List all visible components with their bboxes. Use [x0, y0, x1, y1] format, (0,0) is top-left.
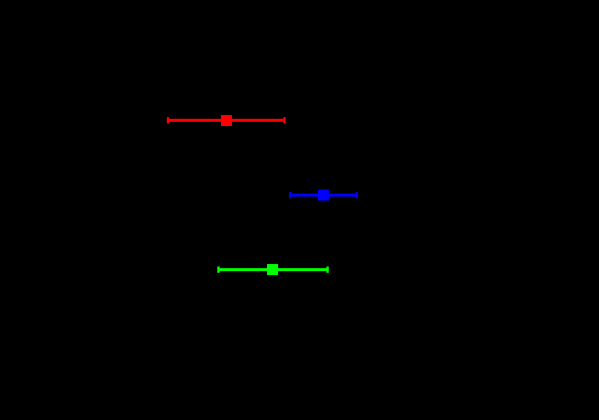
series 3 (green) error bar line — [219, 268, 328, 271]
series 2 (blue) square marker — [318, 190, 329, 201]
series 3 (green) left cap — [217, 267, 219, 273]
series 2 (blue) error bar line — [290, 194, 356, 197]
series 3 (green) right cap — [326, 267, 328, 273]
series 1 (red) error bar line — [168, 119, 284, 122]
series 1 (red) square marker — [221, 115, 232, 126]
series 1 (red) right cap — [283, 117, 285, 123]
series 3 (green) square marker — [267, 264, 278, 275]
series 2 (blue) right cap — [356, 192, 358, 198]
series 2 (blue) left cap — [289, 192, 291, 198]
series 1 (red) left cap — [167, 117, 169, 123]
